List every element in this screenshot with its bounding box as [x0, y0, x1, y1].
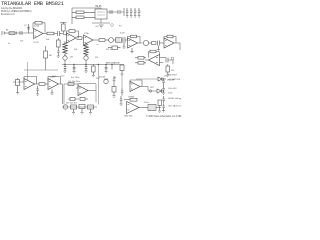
transistor Q2: [143, 40, 151, 45]
svg-text:10k: 10k: [20, 41, 23, 43]
resistor R18: [68, 83, 74, 86]
resistor R28: [120, 65, 124, 76]
label 100u: [144, 102, 148, 104]
svg-text:IC1A: IC1A: [34, 25, 39, 28]
resistor R6: [116, 38, 122, 42]
node VCC: [111, 24, 114, 27]
wire opamp3 out: [93, 39, 99, 41]
title TRIANGULAR EMB BMS821: [1, 1, 64, 7]
resistor R19: [68, 98, 79, 101]
label left bus: [59, 61, 61, 63]
op-amp IC2B: [128, 38, 138, 48]
svg-text:OUT: OUT: [150, 87, 155, 89]
svg-text:+9V BAT 9V6: +9V BAT 9V6: [168, 78, 181, 81]
op-amp IC1A: [34, 29, 44, 39]
svg-text:4u7 100n: 4u7 100n: [71, 77, 79, 79]
svg-text:50k: 50k: [74, 49, 77, 51]
svg-text:2k2: 2k2: [96, 44, 100, 46]
capacitor C16: [162, 87, 165, 95]
decoupling capacitor C25: [138, 8, 140, 17]
svg-text:TRIANGULAR EMB BMS821: TRIANGULAR EMB BMS821: [1, 1, 64, 7]
svg-text:PCB by LUXEMA (DC535MX): PCB by LUXEMA (DC535MX): [1, 10, 32, 13]
wire opamp5 out: [174, 43, 180, 50]
wire opamp4 out: [138, 42, 143, 44]
label C16: [168, 88, 177, 90]
label VCC: [119, 26, 122, 28]
capacitor C5: [157, 41, 164, 52]
decoupling capacitor C23: [130, 8, 132, 17]
svg-text:+9V: +9V: [95, 26, 99, 28]
resistor R21: [76, 16, 84, 19]
wire power left: [72, 8, 101, 24]
label under IC6: [124, 116, 133, 118]
label 22k mid: [95, 57, 98, 59]
label LEVEL: [168, 98, 181, 100]
label R3 value: [46, 39, 49, 41]
resistor R12: [92, 65, 96, 77]
feedback resistor IC2B: [131, 35, 137, 38]
node junction pre-D2: [149, 90, 151, 92]
label out jack: [168, 105, 182, 108]
ground R15: [166, 75, 169, 77]
resistor R5: [99, 39, 109, 42]
svg-text:mod by the BIG2000: mod by the BIG2000: [1, 7, 23, 10]
label Q3: [99, 77, 106, 79]
potentiometer VR2 knob: [63, 56, 67, 64]
note line 3: [1, 13, 15, 16]
capacitor C32: [73, 65, 76, 73]
label row mid values: [71, 77, 79, 79]
wire opamp8 out: [59, 84, 63, 104]
op-amp IC3A: [164, 38, 174, 48]
svg-text:22k: 22k: [95, 57, 98, 59]
capacitor C11: [80, 98, 88, 101]
zigzag resistor RZ1: [63, 42, 68, 56]
capacitor C31: [84, 65, 87, 73]
svg-text:© 2003 bass-schematics rev 2.0: © 2003 bass-schematics rev 2.08b: [146, 115, 182, 118]
feedback wire IC1B: [67, 31, 79, 38]
ground power: [99, 25, 104, 28]
label LM386: [128, 97, 135, 99]
op-amp IC5B: [130, 82, 140, 92]
op-amp IC3B: [149, 55, 160, 66]
feedback wire IC3A: [164, 37, 176, 44]
label battery: [168, 78, 181, 81]
label C1: [8, 43, 10, 45]
capacitor C20: [107, 10, 118, 14]
op-amp IC6: [127, 102, 140, 114]
resistor R17: [39, 83, 48, 86]
svg-text:B version 2.0: B version 2.0: [1, 13, 15, 16]
label +9V rail: [95, 26, 99, 28]
feedback wire IC5B: [130, 80, 142, 87]
op-amp IC4B: [48, 79, 59, 90]
svg-text:OUT JACK 6.3: OUT JACK 6.3: [168, 105, 182, 108]
resistor R1: [9, 32, 15, 35]
label IC2B: [120, 33, 125, 35]
wire opamp1 out: [43, 33, 47, 35]
svg-text:100u: 100u: [144, 102, 148, 104]
feedback wire IC5A: [78, 84, 96, 89]
label bottom row values: [66, 103, 78, 105]
label near R28: [114, 77, 116, 79]
feedback resistor IC1B: [69, 30, 75, 33]
capacitor C8: [105, 65, 108, 73]
svg-text:1u: 1u: [8, 43, 10, 45]
input coupling ticks: [5, 32, 17, 35]
svg-text:LEVEL 50k log: LEVEL 50k log: [168, 98, 181, 100]
note line 1: [1, 7, 23, 10]
svg-text:78L05: 78L05: [95, 6, 102, 8]
ground IC4B: [50, 90, 53, 95]
svg-text:1M: 1M: [70, 57, 73, 59]
wire lower loop: [64, 84, 96, 104]
svg-text:TL072: TL072: [33, 42, 40, 44]
svg-text:10u: 10u: [164, 76, 167, 78]
feedback resistor IC3B: [149, 50, 160, 57]
feedback resistor R2: [33, 22, 45, 33]
svg-text:BC549: BC549: [99, 77, 106, 79]
op-amp IC4A: [24, 79, 35, 90]
resistor R15: [166, 64, 170, 75]
regulator U5: [95, 9, 107, 19]
decoupling capacitor C24: [134, 8, 136, 17]
resistor R24: [88, 105, 94, 114]
feedback wire IC4B: [48, 77, 61, 85]
label under opamp1: [33, 42, 40, 44]
wire opamp7 out: [35, 83, 40, 85]
wire opamp10 out: [140, 87, 148, 91]
svg-text:RESONANCE: RESONANCE: [106, 62, 120, 65]
resistor R20: [76, 11, 84, 14]
label row lower mid: [68, 81, 80, 83]
junction dots bus: [64, 64, 106, 65]
op-amp IC5A: [78, 86, 88, 96]
resistor R9: [44, 46, 54, 70]
capacitor C6: [57, 51, 60, 58]
label near D2: [150, 87, 155, 89]
junction node B: [111, 64, 112, 70]
svg-text:10u: 10u: [61, 76, 64, 78]
label switch: [168, 75, 178, 77]
resistor R27: [148, 105, 156, 111]
svg-text:4k7 4k7 4k7: 4k7 4k7 4k7: [66, 103, 78, 105]
feedback resistor IC3A: [167, 35, 173, 38]
label 1M: [70, 57, 73, 59]
capacitor C9: [166, 58, 173, 65]
capacitor C17: [162, 96, 165, 104]
resistor R8 vertical chain: [57, 38, 61, 51]
label IC4B: [50, 77, 55, 79]
wire opamp6 out: [145, 58, 166, 63]
wire opamp9 out: [88, 90, 96, 92]
node out circle: [171, 57, 174, 60]
label under bus: [96, 78, 99, 80]
wire input lower: [13, 81, 24, 83]
wire input: [7, 32, 34, 34]
svg-text:100u 16V: 100u 16V: [168, 88, 177, 90]
op-amp IC1B: [67, 33, 77, 43]
svg-text:SW DPDT: SW DPDT: [168, 75, 178, 77]
ground under IC2B: [131, 48, 134, 53]
svg-text:IN: IN: [6, 30, 9, 32]
resistor R13: [135, 57, 146, 60]
capacitor C2: [24, 24, 30, 33]
feedback wire IC2B: [128, 37, 141, 44]
svg-text:10k: 10k: [46, 39, 49, 41]
resistor R30: [158, 100, 161, 113]
wire out final: [156, 107, 161, 109]
label 100n: [168, 93, 172, 95]
resistor R14: [135, 62, 146, 65]
trimmer RV1: [60, 22, 67, 35]
wire bottom row: [62, 106, 97, 108]
resistor R25: [112, 84, 116, 98]
label 22k: [171, 70, 174, 72]
svg-text:GND 386: GND 386: [124, 116, 133, 118]
label input: [6, 30, 9, 32]
svg-text:47k 1n: 47k 1n: [106, 49, 112, 51]
label RESONANCE: [106, 62, 120, 65]
svg-text:+: +: [59, 61, 61, 63]
footer text: [146, 115, 182, 118]
svg-text:9V: 9V: [119, 26, 122, 28]
svg-text:22k: 22k: [171, 70, 174, 72]
wire node A: [63, 34, 66, 36]
svg-text:IC2B: IC2B: [120, 33, 125, 35]
wire bus y64: [62, 64, 124, 66]
label D1: [167, 80, 175, 82]
transistor Q1: [109, 38, 116, 43]
svg-text:4k7: 4k7: [49, 55, 53, 57]
capacitor C12: [113, 76, 116, 84]
resistor R3: [47, 32, 57, 35]
resistor R7: [152, 42, 157, 45]
connector circle J2: [63, 105, 67, 109]
capacitor C10: [36, 86, 39, 96]
capacitor C19 vertical: [121, 88, 124, 96]
label 10k input: [20, 41, 23, 43]
feedback wire IC4A: [24, 77, 37, 85]
label IC1A: [34, 25, 39, 28]
wire C19 top: [121, 74, 123, 88]
resistor R23: [79, 105, 85, 115]
wire mid vertical: [27, 62, 29, 80]
capacitor C4: [122, 37, 128, 49]
svg-text:IC2A: IC2A: [84, 32, 89, 35]
label mid chain values: [106, 49, 112, 51]
resistor R26: [124, 98, 137, 101]
resistor R29: [108, 46, 121, 49]
wire power bottom: [92, 19, 110, 23]
capacitor C13: [120, 96, 123, 106]
svg-text:C2: C2: [24, 25, 27, 27]
wire bottom mid: [136, 78, 158, 80]
wire opamp11 out: [139, 107, 148, 109]
note line 2: [1, 10, 32, 13]
label IC2A: [84, 32, 89, 35]
capacitor C21: [118, 8, 124, 16]
diode D2: [148, 89, 164, 93]
label 10u: [61, 76, 64, 78]
label mid 100k: [52, 76, 56, 78]
op-amp IC2A: [84, 35, 94, 45]
capacitor C18: [162, 104, 165, 112]
label value faint: [96, 44, 100, 46]
capacitor C30: [63, 65, 66, 73]
wire x98 down: [97, 65, 99, 105]
diode D1: [158, 77, 166, 81]
wire mid horizontal: [24, 69, 58, 71]
svg-text:1k: 1k: [114, 77, 116, 79]
input jack J1: [2, 31, 7, 35]
label regulator 78L05: [95, 6, 102, 8]
label 10u out: [164, 76, 167, 78]
potentiometer VR3 knob: [84, 56, 88, 64]
capacitor C3: [58, 31, 64, 36]
svg-text:IC4B: IC4B: [50, 77, 55, 79]
resistor R22: [71, 105, 77, 114]
capacitor C15: [162, 78, 165, 87]
svg-text:100n: 100n: [168, 93, 172, 95]
label 50k: [74, 49, 77, 51]
resistor R16: [16, 78, 20, 94]
capacitor C1: [20, 31, 22, 35]
zigzag resistor RZ2: [84, 43, 89, 56]
transistor Q3: [104, 79, 108, 84]
decoupling capacitor C22: [126, 8, 128, 17]
resistor R4: [77, 37, 82, 40]
